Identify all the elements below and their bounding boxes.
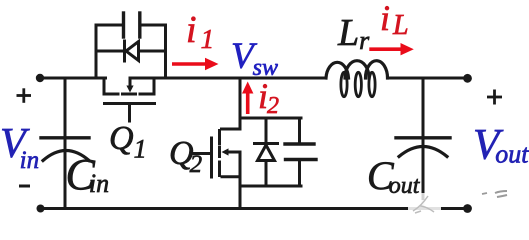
transistor Q2 source contact (222, 175, 240, 178)
wire Q2 branch top (240, 117, 301, 120)
transistor Q1 drain lead (140, 78, 154, 94)
wire top rail middle segment (drain side) (130, 77, 326, 80)
transistor Q2 body arrow (222, 148, 241, 155)
transistor Q2 gate bar (210, 138, 213, 177)
node dot bottom left (37, 205, 45, 213)
minus sign left (19, 185, 30, 188)
plus sign left (17, 88, 32, 103)
transistor Q1 body arrow (126, 79, 133, 93)
wire top rail right segment (388, 77, 468, 80)
watermark veil over bottom rail (408, 200, 441, 216)
inductor L_r coil humps (326, 61, 388, 78)
arrow i1 current arrow (172, 58, 219, 70)
capacitor C_out (396, 138, 450, 157)
transistor Q2 drain lead (222, 118, 241, 129)
capacitor Q1 snubber cap (96, 13, 166, 37)
svg-text:i2: i2 (258, 76, 279, 119)
transistor Q1 channel middle dash (123, 93, 136, 96)
diode D2 body diode of Q2 (255, 118, 278, 186)
node dot bottom right (463, 204, 472, 213)
wire C_out vertical lead (422, 78, 425, 209)
watermark gray dashes near V_out (482, 191, 507, 197)
transistor Q2 source lead (239, 152, 242, 209)
svg-text:Vin: Vin (0, 121, 39, 174)
svg-text:Q1: Q1 (109, 120, 147, 164)
transistor Q1 gate bar (105, 102, 155, 105)
watermark squiggle (413, 196, 434, 213)
transistor Q2 channel dashes (218, 131, 221, 176)
svg-text:Cout: Cout (367, 153, 421, 199)
wire V_sw node drop to Q2 (239, 78, 242, 118)
diode Q1 body diode (96, 41, 166, 61)
capacitor Q2 snubber cap (285, 118, 316, 186)
capacitor C_in (41, 138, 89, 161)
arrow i2 current arrow (242, 82, 253, 115)
arrow iL current arrow (369, 43, 414, 55)
wire top rail left segment (40, 77, 106, 80)
node dot top right (463, 74, 472, 83)
wire Q2 branch bottom (240, 185, 301, 188)
svg-text:Q2: Q2 (169, 135, 202, 178)
svg-text:Cin: Cin (66, 150, 110, 199)
svg-text:Lr: Lr (337, 12, 370, 55)
svg-text:iL: iL (380, 0, 409, 41)
wire Q1 snubber loop left vertical (95, 25, 98, 78)
transistor Q1 gate stub (128, 104, 131, 122)
transistor Q2 gate stub (194, 152, 210, 155)
wire bottom rail (41, 207, 468, 210)
transistor Q1 source lead (104, 78, 118, 94)
wire Q1 snubber loop right vertical (164, 25, 167, 78)
svg-text:i1: i1 (186, 9, 214, 54)
inductor L_r coil loops (341, 72, 375, 96)
svg-text:Vsw: Vsw (231, 36, 278, 81)
node dot top left (36, 74, 44, 82)
plus sign right (487, 90, 502, 105)
wire C_in vertical lead (64, 78, 67, 209)
svg-text:Vout: Vout (473, 122, 529, 169)
